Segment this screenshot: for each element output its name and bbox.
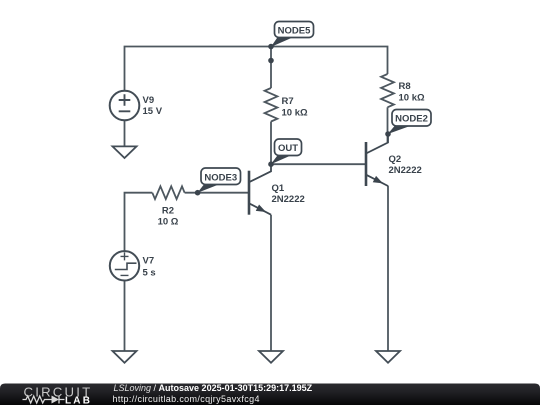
svg-text:LSLoving / Autosave 2025-01-30: LSLoving / Autosave 2025-01-30T15:29:17.…: [114, 383, 313, 393]
svg-text:NODE5: NODE5: [278, 26, 311, 37]
svg-text:V9: V9: [143, 95, 155, 106]
svg-text:R8: R8: [399, 81, 411, 92]
svg-text:NODE2: NODE2: [395, 114, 428, 125]
svg-text:Q2: Q2: [389, 154, 402, 165]
svg-text:10 kΩ: 10 kΩ: [282, 108, 308, 119]
svg-text:5 s: 5 s: [143, 268, 156, 279]
svg-text:15 V: 15 V: [143, 106, 163, 117]
svg-text:LAB: LAB: [65, 395, 92, 405]
svg-text:OUT: OUT: [278, 143, 298, 154]
svg-text:R7: R7: [282, 96, 294, 107]
svg-text:10 Ω: 10 Ω: [158, 217, 179, 228]
svg-text:2N2222: 2N2222: [272, 194, 305, 205]
svg-text:V7: V7: [143, 256, 155, 267]
svg-text:R2: R2: [162, 206, 174, 217]
svg-text:Q1: Q1: [272, 183, 285, 194]
svg-text:http://circuitlab.com/cqjry5av: http://circuitlab.com/cqjry5avxfcg4: [113, 394, 260, 404]
svg-text:NODE3: NODE3: [204, 173, 237, 184]
svg-text:10 kΩ: 10 kΩ: [399, 93, 425, 104]
svg-text:2N2222: 2N2222: [389, 165, 422, 176]
